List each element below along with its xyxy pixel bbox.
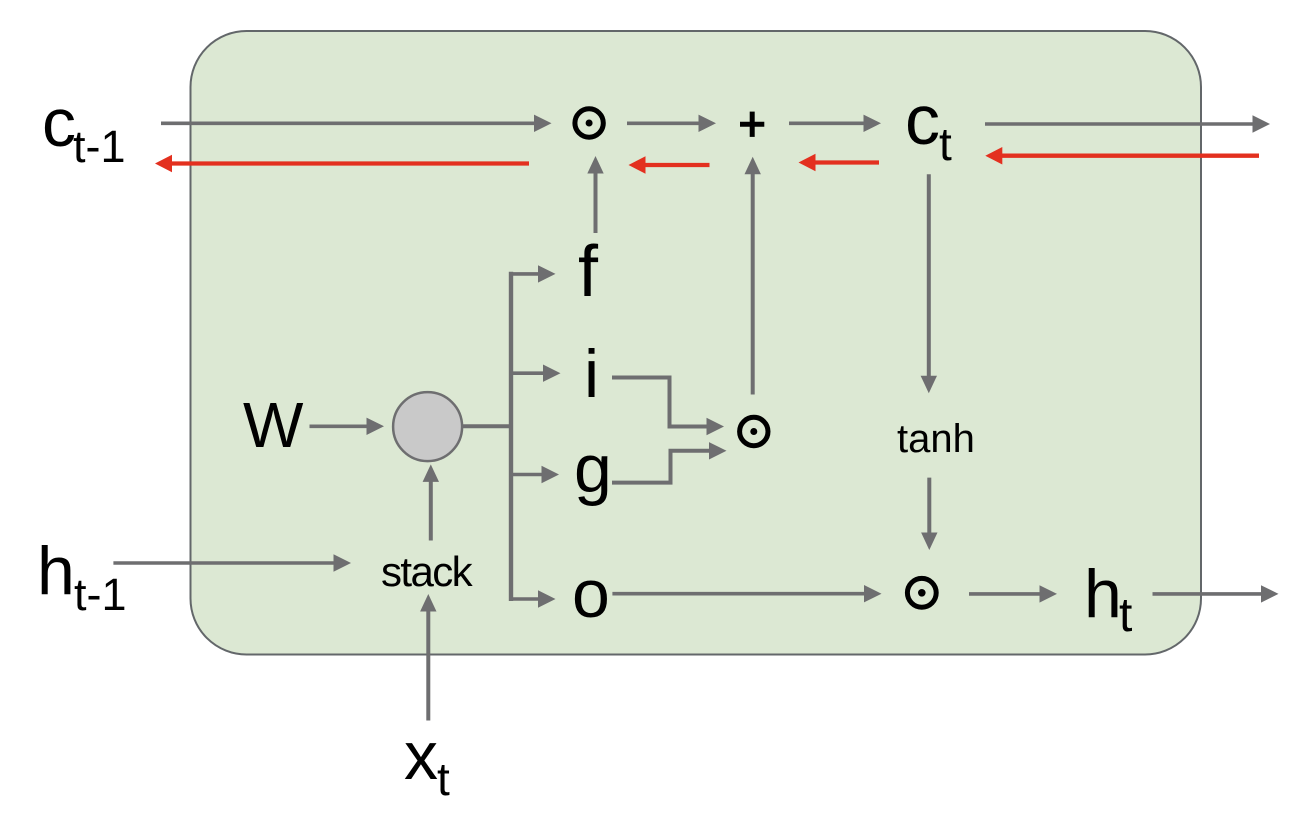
svg-text:c: c	[42, 85, 76, 161]
svg-text:t-1: t-1	[74, 569, 127, 620]
label h_t	[1084, 556, 1132, 642]
wire g to odot2	[612, 442, 727, 483]
LSTM cell body	[191, 31, 1202, 655]
wire c_t down to tanh (gray arrow)	[921, 174, 937, 393]
svg-text:h: h	[1084, 556, 1122, 632]
wire i to odot2	[612, 378, 724, 436]
wire h_t to output (gray arrow)	[1153, 585, 1279, 602]
wire i*g product up to plus (gray arrow)	[745, 157, 761, 395]
wire tanh to odot3 (gray arrow)	[921, 478, 937, 550]
wire stack up to matmul (gray arrow)	[423, 464, 439, 540]
wire o to odot3 (gray arrow)	[612, 585, 881, 602]
svg-text:i: i	[584, 336, 599, 412]
wire c_{t-1} to odot1 (gray arrow)	[161, 115, 552, 132]
node odot1 (forget gate multiply)	[575, 109, 603, 137]
svg-text:W: W	[243, 389, 304, 461]
branch vertical wire	[509, 272, 513, 601]
svg-text:t: t	[1119, 589, 1132, 642]
red backward arrow plus to odot1	[629, 156, 710, 174]
svg-text:x: x	[404, 718, 438, 794]
node odot3 (o times tanh c)	[907, 578, 936, 607]
label x_t	[404, 718, 450, 805]
wire f up to odot1 (gray arrow)	[587, 156, 603, 233]
label c_t	[905, 81, 952, 170]
wire h_{t-1} to stack (gray arrow)	[113, 554, 351, 571]
branch wire to f	[509, 265, 556, 282]
svg-text:t-1: t-1	[73, 121, 126, 172]
svg-text:g: g	[574, 431, 612, 507]
wire odot1 to plus (gray arrow)	[627, 115, 716, 132]
node odot2 (i times g)	[740, 417, 768, 445]
red backward arrow to c_{t-1}	[155, 155, 529, 173]
label c_{t-1}	[42, 85, 126, 172]
node matmul (gray circle)	[393, 392, 462, 461]
label h_{t-1}	[37, 533, 127, 620]
wire plus to c_t (gray arrow)	[789, 115, 881, 132]
wire W to matmul node (gray arrow)	[310, 418, 385, 435]
wire x_t up to stack (gray arrow)	[420, 594, 436, 721]
wire odot3 to h_t (gray arrow)	[969, 585, 1057, 602]
svg-text:t: t	[939, 118, 952, 170]
red backward arrow into c_t from right	[985, 147, 1259, 165]
wire c_t to next cell output (gray arrow)	[985, 115, 1270, 132]
svg-text:f: f	[578, 232, 599, 312]
svg-text:c: c	[905, 81, 940, 159]
node plus (cell state add)	[740, 112, 764, 137]
branch wire to i	[509, 365, 561, 382]
svg-text:stack: stack	[381, 548, 474, 595]
svg-text:t: t	[437, 753, 450, 805]
svg-text:o: o	[572, 556, 610, 632]
red backward arrow c_t to plus	[799, 154, 880, 172]
wire matmul to gate branch	[462, 424, 511, 428]
svg-text:tanh: tanh	[897, 417, 975, 461]
branch wire to g	[509, 466, 559, 483]
svg-text:h: h	[37, 533, 75, 609]
branch wire to o	[509, 590, 556, 607]
